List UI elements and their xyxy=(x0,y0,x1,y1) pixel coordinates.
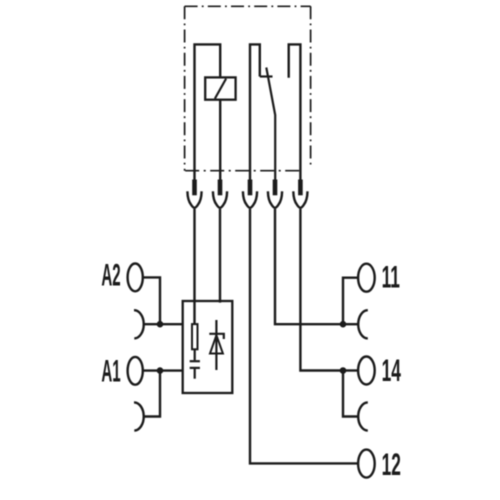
svg-text:14: 14 xyxy=(382,354,401,389)
terminal pin 2 xyxy=(218,180,223,196)
junction node L1 xyxy=(157,321,164,328)
changeover contact arm xyxy=(266,68,275,181)
wire terminal5 to node J2 xyxy=(300,209,343,371)
wire terminal1 to input box resistor xyxy=(193,209,195,324)
wire terminal4 to node J1 xyxy=(275,209,343,324)
relay enclosure dash-dot border right xyxy=(310,6,312,167)
wire A1 to input box xyxy=(143,369,183,371)
wire terminal3 down to contact 12 xyxy=(250,209,358,463)
svg-text:A2: A2 xyxy=(101,259,120,293)
contact circle 12 xyxy=(358,450,375,478)
terminal socket 3 xyxy=(243,191,257,208)
wire resistor to capacitor xyxy=(194,349,196,360)
terminal socket 2 xyxy=(213,191,227,208)
socket arc right 11 xyxy=(358,310,368,338)
contact circle 14 xyxy=(358,357,375,385)
wire coil bottom to pin xyxy=(219,100,221,180)
wire node L2 down to socket arc xyxy=(144,371,160,417)
resistor R xyxy=(192,324,198,349)
zener diode cathode bar xyxy=(209,334,224,339)
contact circle A1 xyxy=(128,357,143,385)
terminal pin 1 xyxy=(192,180,197,196)
capacitor C plate top xyxy=(190,360,200,362)
relay enclosure dash-dot border left xyxy=(184,6,186,170)
terminal socket 4 xyxy=(268,191,282,208)
wire NC branch: pin 12 up, top bar, NC stub xyxy=(250,44,260,180)
terminal pin 5 xyxy=(298,180,303,196)
wire terminal2 to input box edge xyxy=(219,209,221,303)
terminal pin 3 xyxy=(248,180,253,196)
contact circle A2 xyxy=(128,264,143,292)
wire node J2 to contact 14 xyxy=(343,369,358,371)
socket arc right 14 xyxy=(358,402,368,430)
svg-text:A1: A1 xyxy=(101,355,120,389)
zener diode triangle xyxy=(210,335,223,353)
junction node J1 xyxy=(340,321,347,328)
contact circle 11 xyxy=(358,264,375,292)
wire capacitor lead down xyxy=(194,369,196,379)
junction node J2 xyxy=(340,367,347,374)
NC fixed contact tick xyxy=(260,75,273,77)
wire node J1 up to contact 11 xyxy=(343,278,358,325)
zener diode V lead top xyxy=(215,320,217,370)
wire NO branch: NO stub, top bar, down to pin 14 xyxy=(289,44,301,180)
wire node J1 to socket arc xyxy=(343,323,358,325)
wire node J2 down to socket arc xyxy=(343,371,358,417)
wire coil branch: terminal A1-pin up, top bar, down to coil xyxy=(195,44,221,180)
terminal socket 5 xyxy=(293,191,307,208)
relay enclosure dash-dot border top xyxy=(185,5,311,7)
socket arc left A2 xyxy=(134,310,144,338)
svg-text:11: 11 xyxy=(382,260,400,295)
relay coil K xyxy=(205,77,235,99)
input module box xyxy=(183,301,233,393)
junction node L2 xyxy=(157,367,164,374)
terminal socket 1 xyxy=(187,191,201,208)
capacitor C plate bottom xyxy=(190,367,200,369)
relay enclosure dash-dot border bottom xyxy=(185,170,303,172)
wire A2 to node L1 xyxy=(143,277,160,324)
socket arc left A1 xyxy=(134,402,144,430)
svg-text:12: 12 xyxy=(382,448,401,483)
wire arc to input box xyxy=(144,323,183,325)
terminal pin 4 xyxy=(273,180,278,196)
